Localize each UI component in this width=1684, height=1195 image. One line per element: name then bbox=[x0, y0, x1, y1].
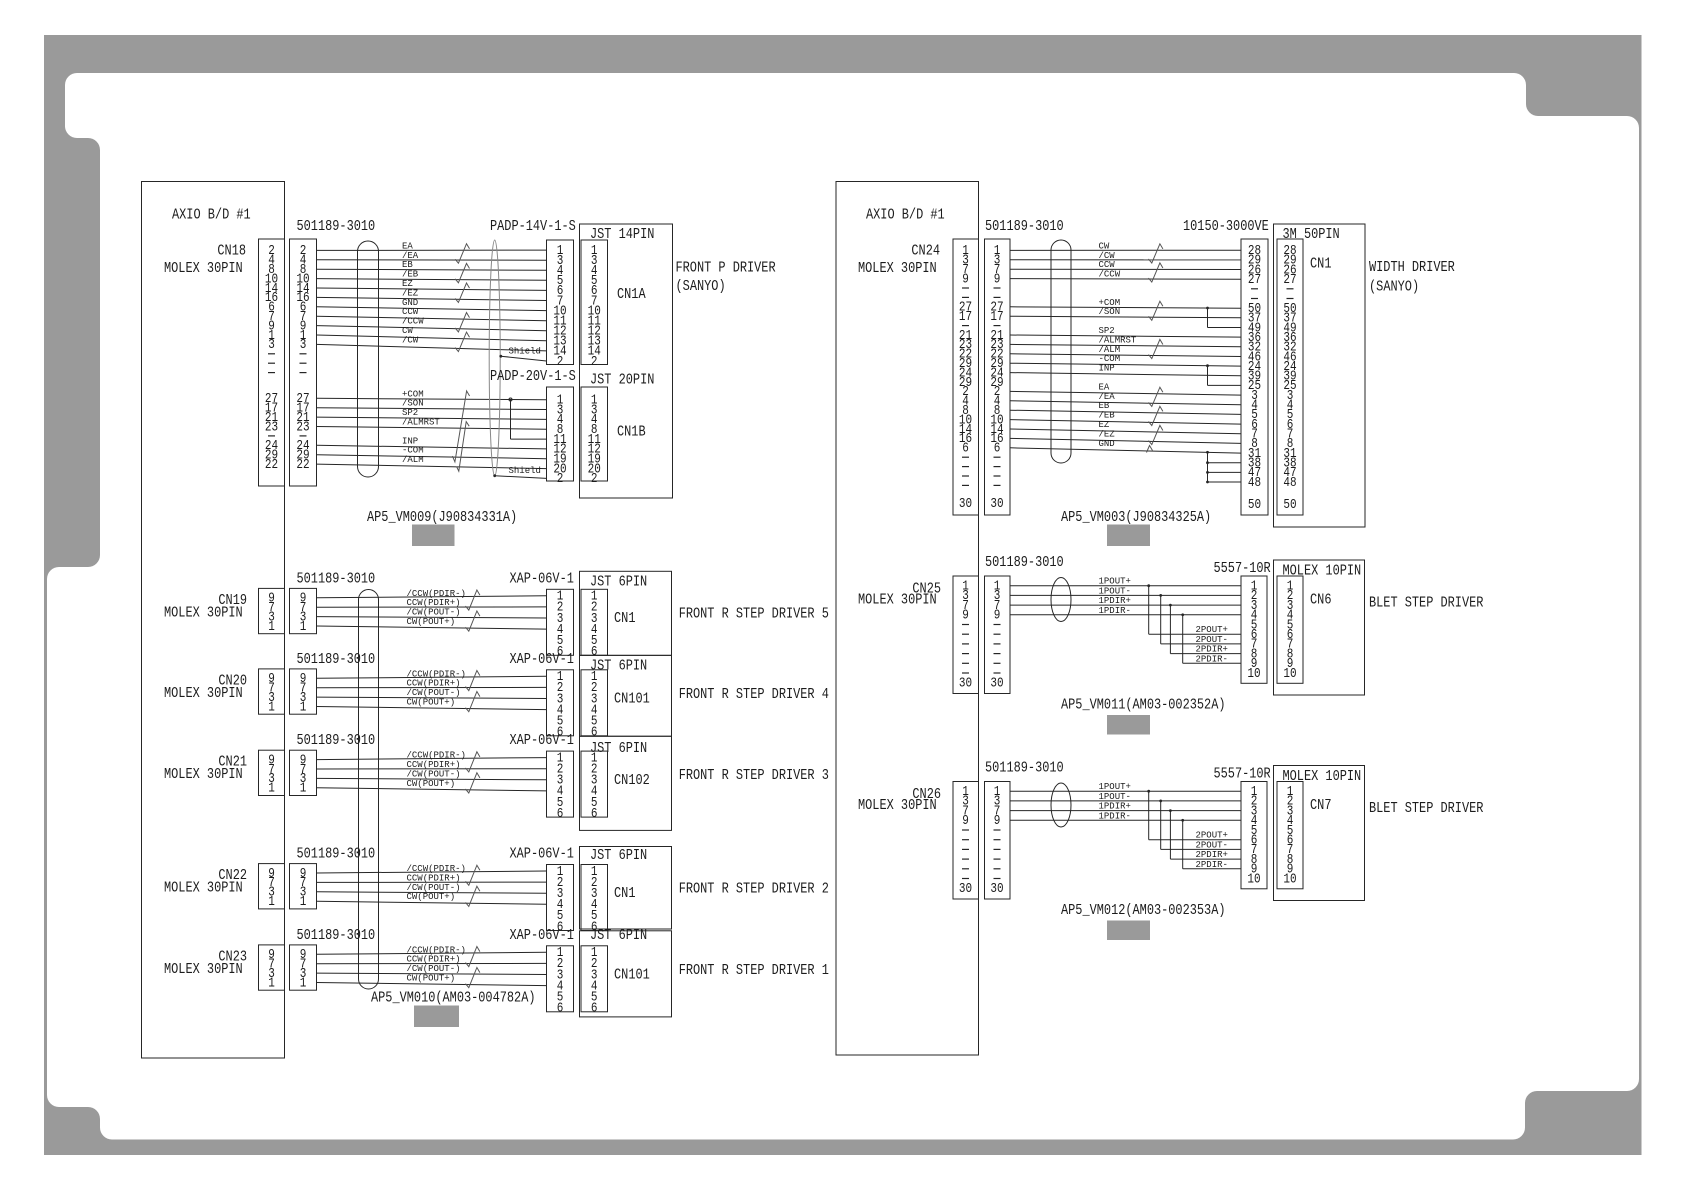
svg-text:22: 22 bbox=[265, 458, 278, 473]
svg-text:WIDTH DRIVER: WIDTH DRIVER bbox=[1369, 260, 1455, 276]
wires CN18 to PADP-14V-1-S (EA../CW) bbox=[317, 249, 547, 251]
svg-text:FRONT R STEP DRIVER 4: FRONT R STEP DRIVER 4 bbox=[679, 687, 829, 703]
svg-text:50: 50 bbox=[1248, 498, 1261, 513]
svg-text:AP5_VM011(AM03-002352A): AP5_VM011(AM03-002352A) bbox=[1061, 698, 1226, 714]
svg-text:10: 10 bbox=[1283, 872, 1296, 887]
svg-text:3: 3 bbox=[268, 338, 275, 353]
svg-text:CN102: CN102 bbox=[614, 773, 650, 789]
twisted bundle marks CN18 lower bbox=[452, 391, 469, 462]
wires CN21 to XAP-06V-1 bbox=[317, 758, 547, 760]
svg-text:6: 6 bbox=[994, 442, 1001, 457]
svg-text:FRONT P DRIVER: FRONT P DRIVER bbox=[676, 261, 776, 277]
node: -COM bridge to pin 25 bbox=[1206, 364, 1209, 367]
svg-text:1: 1 bbox=[300, 895, 307, 910]
twisted pair marks CN24 bbox=[1149, 244, 1163, 263]
svg-text:3M 50PIN: 3M 50PIN bbox=[1283, 227, 1340, 243]
svg-text:BLET STEP DRIVER: BLET STEP DRIVER bbox=[1369, 801, 1484, 817]
cable oval CN25 bbox=[1051, 578, 1071, 622]
svg-text:6: 6 bbox=[962, 442, 969, 457]
svg-text:9: 9 bbox=[962, 609, 969, 624]
svg-text:2POUT-: 2POUT- bbox=[1196, 635, 1228, 645]
svg-text:JST 6PIN: JST 6PIN bbox=[590, 741, 647, 757]
svg-text:10: 10 bbox=[1247, 667, 1260, 682]
svg-text:23: 23 bbox=[296, 420, 309, 435]
connector MOLEX 10PIN outer box (CN6) bbox=[1274, 560, 1365, 695]
connector CN26 pin columns bbox=[953, 782, 979, 900]
svg-text:1POUT-: 1POUT- bbox=[1099, 792, 1131, 802]
svg-text:MOLEX 30PIN: MOLEX 30PIN bbox=[858, 798, 937, 814]
svg-text:30: 30 bbox=[959, 497, 972, 512]
svg-text:XAP-06V-1: XAP-06V-1 bbox=[510, 928, 574, 944]
svg-text:XAP-06V-1: XAP-06V-1 bbox=[510, 733, 574, 749]
svg-text:PADP-20V-1-S: PADP-20V-1-S bbox=[490, 369, 576, 385]
svg-text:PADP-14V-1-S: PADP-14V-1-S bbox=[490, 219, 576, 235]
svg-text:1: 1 bbox=[268, 700, 275, 715]
shield ellipse CN18 bbox=[489, 240, 500, 476]
connector MOLEX 10PIN outer box (CN7) bbox=[1274, 766, 1365, 901]
connector 3M 50PIN outer box (WIDTH DRIVER) bbox=[1274, 224, 1366, 527]
connector JST 14PIN outer box (FRONT P DRIVER) bbox=[580, 224, 673, 498]
board AXIO B/D #1 (left) bbox=[142, 182, 285, 1059]
svg-text:CN101: CN101 bbox=[614, 692, 650, 708]
connector JST 6PIN outer box (CN101) bbox=[580, 655, 672, 736]
svg-text:MOLEX 30PIN: MOLEX 30PIN bbox=[858, 261, 937, 277]
cable oval CN26 bbox=[1051, 783, 1071, 827]
connector CN24 pin columns bbox=[953, 239, 979, 515]
svg-text:CW(POUT+): CW(POUT+) bbox=[407, 974, 456, 984]
svg-text:JST 6PIN: JST 6PIN bbox=[590, 848, 647, 864]
svg-text:CN6: CN6 bbox=[1310, 592, 1332, 608]
svg-text:/ALM: /ALM bbox=[402, 455, 424, 465]
connector CN21 pin columns bbox=[259, 750, 285, 795]
wires CN18 to PADP-20V-1-S (+COM../ALM) bbox=[317, 398, 547, 399]
board AXIO B/D #1 (right) bbox=[836, 182, 979, 1056]
wires CN24 to 10150-3000VE bbox=[1010, 249, 1241, 251]
twisted pair marks CN20 bbox=[466, 671, 480, 691]
svg-text:2POUT+: 2POUT+ bbox=[1196, 625, 1228, 635]
svg-text:501189-3010: 501189-3010 bbox=[985, 761, 1064, 777]
svg-text:XAP-06V-1: XAP-06V-1 bbox=[510, 847, 574, 863]
svg-text:CW(POUT+): CW(POUT+) bbox=[407, 779, 456, 789]
connector CN25 pin columns bbox=[953, 576, 979, 694]
svg-text:9: 9 bbox=[994, 814, 1001, 829]
connector 10150-3000VE pin column bbox=[1241, 239, 1268, 515]
svg-text:1: 1 bbox=[300, 782, 307, 797]
wires CN19 to XAP-06V-1 bbox=[317, 596, 547, 598]
svg-text:30: 30 bbox=[990, 882, 1003, 897]
connector JST 20PIN pin column CN1B bbox=[581, 387, 608, 481]
connector JST 6PIN outer box (CN102) bbox=[580, 736, 672, 830]
svg-text:9: 9 bbox=[994, 609, 1001, 624]
wires CN23 to XAP-06V-1 bbox=[317, 952, 547, 954]
svg-text:1: 1 bbox=[300, 620, 307, 635]
svg-text:6: 6 bbox=[591, 726, 598, 741]
svg-text:CN101: CN101 bbox=[614, 968, 650, 984]
connector CN23 pin columns bbox=[259, 945, 285, 990]
gray block AP5_VM009 bbox=[412, 525, 455, 547]
connector CN18 pin column (board side) bbox=[259, 239, 285, 486]
svg-text:501189-3010: 501189-3010 bbox=[985, 555, 1064, 571]
nodes: 2P bridges CN26 bbox=[1147, 790, 1150, 793]
connector JST 14PIN pin column CN1A bbox=[581, 240, 608, 365]
svg-text:48: 48 bbox=[1283, 476, 1296, 491]
svg-text:MOLEX 30PIN: MOLEX 30PIN bbox=[164, 881, 243, 897]
svg-text:22: 22 bbox=[296, 458, 309, 473]
svg-text:MOLEX 30PIN: MOLEX 30PIN bbox=[164, 261, 243, 277]
gray block AP5_VM012 bbox=[1107, 921, 1150, 941]
wires CN20 to XAP-06V-1 bbox=[317, 676, 547, 678]
connector CN20 pin columns bbox=[259, 669, 285, 714]
svg-text:501189-3010: 501189-3010 bbox=[297, 928, 376, 944]
svg-text:501189-3010: 501189-3010 bbox=[297, 847, 376, 863]
svg-text:1POUT+: 1POUT+ bbox=[1099, 577, 1131, 587]
svg-text:50: 50 bbox=[1283, 498, 1296, 513]
svg-text:CW(POUT+): CW(POUT+) bbox=[407, 698, 456, 708]
svg-text:AP5_VM009(J90834331A): AP5_VM009(J90834331A) bbox=[367, 510, 517, 526]
svg-text:501189-3010: 501189-3010 bbox=[297, 652, 376, 668]
nodes: 2P bridges CN25 bbox=[1147, 584, 1150, 587]
svg-text:2POUT+: 2POUT+ bbox=[1196, 831, 1228, 841]
svg-text:JST 14PIN: JST 14PIN bbox=[590, 227, 654, 243]
svg-text:2PDIR+: 2PDIR+ bbox=[1196, 645, 1228, 655]
svg-text:10150-3000VE: 10150-3000VE bbox=[1183, 219, 1269, 235]
svg-text:27: 27 bbox=[1248, 273, 1261, 288]
svg-text:FRONT R STEP DRIVER 2: FRONT R STEP DRIVER 2 bbox=[679, 882, 829, 898]
svg-text:MOLEX 30PIN: MOLEX 30PIN bbox=[164, 686, 243, 702]
svg-text:FRONT R STEP DRIVER 1: FRONT R STEP DRIVER 1 bbox=[679, 963, 829, 979]
svg-text:MOLEX 10PIN: MOLEX 10PIN bbox=[1283, 564, 1362, 580]
svg-text:1: 1 bbox=[300, 976, 307, 991]
connector 3M 50PIN pin column CN1 bbox=[1277, 239, 1303, 515]
svg-text:CN1: CN1 bbox=[1310, 257, 1332, 273]
svg-text:XAP-06V-1: XAP-06V-1 bbox=[510, 571, 574, 587]
svg-text:2: 2 bbox=[591, 355, 598, 370]
svg-text:9: 9 bbox=[962, 272, 969, 287]
svg-text:9: 9 bbox=[994, 272, 1001, 287]
svg-text:/ALMRST: /ALMRST bbox=[402, 418, 440, 428]
svg-text:30: 30 bbox=[959, 882, 972, 897]
svg-text:501189-3010: 501189-3010 bbox=[985, 219, 1064, 235]
twisted pair marks CN19 bbox=[466, 590, 480, 610]
svg-text:CN18: CN18 bbox=[217, 244, 246, 260]
svg-text:17: 17 bbox=[959, 310, 972, 325]
svg-text:30: 30 bbox=[990, 497, 1003, 512]
svg-text:CN1B: CN1B bbox=[617, 425, 646, 441]
svg-text:2: 2 bbox=[557, 472, 564, 487]
node: +COM bridge to CN1B pin 11 bbox=[509, 398, 512, 401]
svg-text:1PDIR+: 1PDIR+ bbox=[1099, 802, 1131, 812]
svg-text:1: 1 bbox=[268, 976, 275, 991]
svg-text:JST 6PIN: JST 6PIN bbox=[590, 575, 647, 591]
svg-text:MOLEX 30PIN: MOLEX 30PIN bbox=[164, 962, 243, 978]
cable bundle (stadium) CN18 bbox=[358, 241, 379, 477]
svg-text:CW(POUT+): CW(POUT+) bbox=[407, 892, 456, 902]
connector JST 6PIN outer box (CN101) bbox=[580, 931, 672, 1017]
svg-text:2POUT-: 2POUT- bbox=[1196, 840, 1228, 850]
svg-text:30: 30 bbox=[990, 677, 1003, 692]
svg-text:1: 1 bbox=[268, 782, 275, 797]
svg-text:5557-10R: 5557-10R bbox=[1214, 767, 1271, 783]
gray block AP5_VM011 bbox=[1107, 715, 1150, 735]
svg-text:JST 6PIN: JST 6PIN bbox=[590, 658, 647, 674]
svg-text:Shield: Shield bbox=[509, 347, 541, 357]
svg-text:2PDIR-: 2PDIR- bbox=[1196, 654, 1228, 664]
node: shield tap upper (CN1A pin2) bbox=[499, 355, 502, 358]
svg-text:AXIO B/D #1: AXIO B/D #1 bbox=[866, 208, 945, 224]
svg-text:MOLEX 30PIN: MOLEX 30PIN bbox=[164, 767, 243, 783]
svg-text:XAP-06V-1: XAP-06V-1 bbox=[510, 652, 574, 668]
connector JST 6PIN outer box (CN1) bbox=[580, 847, 672, 930]
svg-text:17: 17 bbox=[990, 310, 1003, 325]
svg-text:AP5_VM010(AM03-004782A): AP5_VM010(AM03-004782A) bbox=[371, 991, 536, 1007]
twisted pair marks CN18 upper bbox=[455, 244, 469, 264]
connector PADP-20V-1-S pin column bbox=[547, 387, 574, 481]
svg-text:23: 23 bbox=[265, 420, 278, 435]
wires CN22 to XAP-06V-1 bbox=[317, 871, 547, 873]
svg-text:27: 27 bbox=[1283, 273, 1296, 288]
svg-text:2: 2 bbox=[591, 472, 598, 487]
node: shield tap lower (CN1B pin2) bbox=[493, 474, 496, 477]
svg-text:3: 3 bbox=[300, 338, 307, 353]
svg-text:1PDIR+: 1PDIR+ bbox=[1099, 596, 1131, 606]
svg-text:48: 48 bbox=[1248, 476, 1261, 491]
cable bundle (stadium) CN24 bbox=[1051, 240, 1071, 463]
svg-text:9: 9 bbox=[962, 814, 969, 829]
svg-text:FRONT R STEP DRIVER 5: FRONT R STEP DRIVER 5 bbox=[679, 606, 829, 622]
svg-text:AXIO B/D #1: AXIO B/D #1 bbox=[172, 208, 251, 224]
svg-text:CN7: CN7 bbox=[1310, 798, 1332, 814]
svg-text:6: 6 bbox=[591, 1002, 598, 1017]
svg-text:1PDIR-: 1PDIR- bbox=[1099, 606, 1131, 616]
twisted pair marks CN23 bbox=[466, 947, 480, 967]
svg-text:/CW: /CW bbox=[402, 335, 419, 345]
svg-text:1: 1 bbox=[268, 620, 275, 635]
svg-text:30: 30 bbox=[959, 677, 972, 692]
svg-text:MOLEX 30PIN: MOLEX 30PIN bbox=[858, 592, 937, 608]
svg-text:1POUT+: 1POUT+ bbox=[1099, 782, 1131, 792]
gray block AP5_VM003 bbox=[1107, 525, 1150, 547]
svg-text:CN1: CN1 bbox=[614, 611, 636, 627]
node: GND bridges to pins 38 47 48 bbox=[1207, 452, 1209, 482]
svg-text:5557-10R: 5557-10R bbox=[1214, 561, 1271, 577]
svg-text:/SON: /SON bbox=[1099, 307, 1121, 317]
svg-text:MOLEX 30PIN: MOLEX 30PIN bbox=[164, 605, 243, 621]
gray block AP5_VM010 bbox=[414, 1006, 459, 1028]
svg-text:FRONT R STEP DRIVER 3: FRONT R STEP DRIVER 3 bbox=[679, 768, 829, 784]
svg-text:AP5_VM012(AM03-002353A): AP5_VM012(AM03-002353A) bbox=[1061, 903, 1226, 919]
svg-text:10: 10 bbox=[1283, 667, 1296, 682]
twisted pair marks CN22 bbox=[466, 865, 480, 885]
connector CN19 pin columns bbox=[259, 588, 285, 633]
wires CN25 to 5557-10R bbox=[1010, 585, 1241, 587]
svg-text:MOLEX 10PIN: MOLEX 10PIN bbox=[1283, 769, 1362, 785]
node: +COM bridge to pin 49 bbox=[1206, 307, 1209, 310]
svg-text:AP5_VM003(J90834325A): AP5_VM003(J90834325A) bbox=[1061, 510, 1211, 526]
twisted pair marks CN21 bbox=[466, 752, 480, 772]
svg-text:2: 2 bbox=[557, 355, 564, 370]
connector PADP-14V-1-S pin column bbox=[547, 240, 574, 365]
svg-text:CW(POUT+): CW(POUT+) bbox=[407, 617, 456, 627]
svg-text:Shield: Shield bbox=[509, 466, 541, 476]
svg-text:501189-3010: 501189-3010 bbox=[297, 571, 376, 587]
svg-text:CN24: CN24 bbox=[911, 244, 940, 260]
svg-text:1: 1 bbox=[268, 895, 275, 910]
svg-text:6: 6 bbox=[557, 807, 564, 822]
svg-text:2PDIR-: 2PDIR- bbox=[1196, 860, 1228, 870]
svg-text:2PDIR+: 2PDIR+ bbox=[1196, 850, 1228, 860]
wires CN26 to 5557-10R bbox=[1010, 790, 1241, 792]
cable bundle (stadium) CN19-CN23 bbox=[359, 590, 379, 990]
svg-text:1POUT-: 1POUT- bbox=[1099, 586, 1131, 596]
svg-text:(SANYO): (SANYO) bbox=[1369, 280, 1419, 296]
svg-text:6: 6 bbox=[557, 1002, 564, 1017]
svg-text:/CCW: /CCW bbox=[1099, 270, 1121, 280]
connector JST 6PIN outer box (CN1) bbox=[580, 571, 672, 655]
svg-text:501189-3010: 501189-3010 bbox=[297, 219, 376, 235]
svg-text:501189-3010: 501189-3010 bbox=[297, 733, 376, 749]
connector 501189-3010 pin column (CN18) bbox=[290, 239, 317, 486]
svg-text:BLET STEP DRIVER: BLET STEP DRIVER bbox=[1369, 596, 1484, 612]
svg-text:GND: GND bbox=[1099, 439, 1115, 449]
svg-text:10: 10 bbox=[1247, 872, 1260, 887]
svg-text:1: 1 bbox=[300, 700, 307, 715]
svg-text:6: 6 bbox=[591, 807, 598, 822]
svg-text:CN1A: CN1A bbox=[617, 287, 646, 303]
svg-text:INP: INP bbox=[1099, 364, 1115, 374]
svg-text:1PDIR-: 1PDIR- bbox=[1099, 811, 1131, 821]
svg-text:CN1: CN1 bbox=[614, 886, 636, 902]
svg-text:(SANYO): (SANYO) bbox=[676, 279, 726, 295]
svg-text:JST 20PIN: JST 20PIN bbox=[590, 373, 654, 389]
connector CN22 pin columns bbox=[259, 864, 285, 909]
svg-text:JST 6PIN: JST 6PIN bbox=[590, 928, 647, 944]
